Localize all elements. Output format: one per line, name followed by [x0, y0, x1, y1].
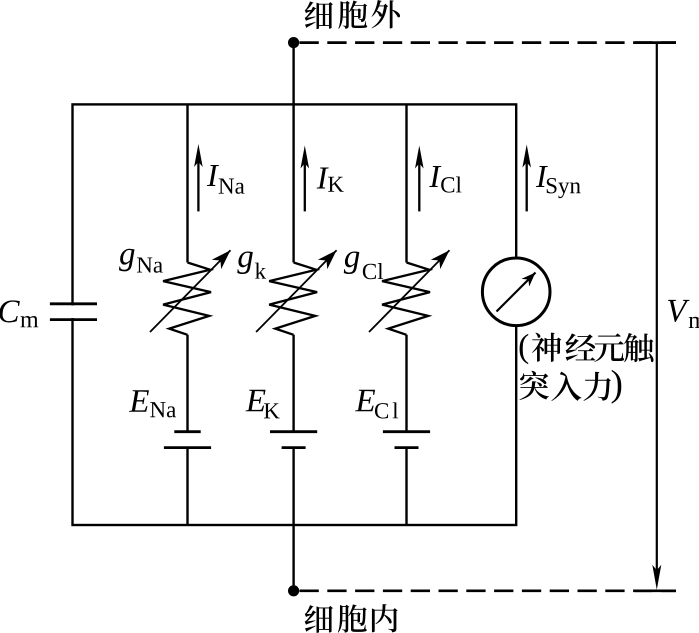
arrow through g_k (variable)	[256, 250, 337, 332]
current arrow I_Syn	[522, 145, 531, 212]
wire: V_m measurement line with arrow	[652, 43, 661, 590]
label C_m	[0, 300, 38, 327]
wire: g_Na branch vertical segments	[186, 104, 188, 525]
label g_Na	[119, 249, 163, 273]
label E_K	[246, 390, 280, 419]
wire: top extracellular dashed line	[300, 41, 677, 44]
resistor g_k (variable conductance zigzag)	[269, 263, 317, 335]
label I_Na	[207, 165, 245, 194]
label V_m	[668, 300, 699, 328]
label E_Cl	[355, 390, 398, 419]
wire: from box bottom rail down to intracellular node	[292, 525, 294, 591]
wire: circuit box outline (top rail, bottom rail, left and right branches)	[73, 104, 517, 525]
label: intracellular 细胞内	[305, 604, 398, 633]
current arrow I_K	[301, 146, 310, 212]
label g_k	[237, 251, 266, 278]
wire: bottom intracellular dashed line	[300, 589, 677, 592]
node: intracellular node dot	[288, 585, 299, 596]
battery E_K	[270, 432, 317, 448]
label I_Cl	[429, 166, 461, 193]
label g_Cl	[344, 251, 383, 279]
wire: from extracellular node down to circuit box top rail	[292, 43, 294, 105]
label I_K	[317, 168, 344, 192]
capacitor C_m	[50, 304, 97, 320]
resistor g_Na (variable conductance zigzag)	[163, 263, 211, 335]
wire: g_K branch vertical segments	[292, 104, 294, 525]
current arrow I_C1	[415, 146, 424, 212]
node: extracellular node dot	[288, 37, 299, 48]
current source U1 (synaptic input meter circle with arrow)	[482, 258, 550, 326]
arrow through g_C1 (variable)	[369, 250, 450, 332]
label E_Na	[129, 390, 176, 417]
arrow through g_Na (variable)	[150, 250, 231, 332]
current arrow I_Na	[194, 144, 203, 211]
wire: g_C1 branch vertical segments	[405, 104, 407, 525]
battery E_Na	[164, 432, 211, 448]
label: extracellular 细胞外	[305, 0, 400, 29]
battery E_C1	[383, 432, 430, 448]
resistor g_C1 (variable conductance zigzag)	[382, 263, 430, 335]
label (神经元触突入力) synaptic input annotation	[520, 333, 654, 404]
label I_Syn	[536, 166, 581, 198]
